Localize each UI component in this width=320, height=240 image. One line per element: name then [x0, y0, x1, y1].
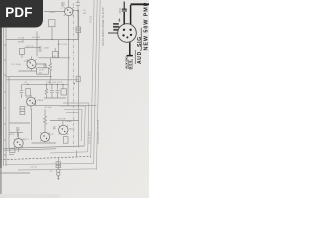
svg-text:12BE6: 12BE6	[37, 100, 44, 102]
svg-text:2nd DET: 2nd DET	[32, 37, 41, 39]
svg-text:470K: 470K	[119, 7, 122, 13]
svg-text:AUD. SIG: AUD. SIG	[137, 36, 143, 64]
svg-text:.02 10K: .02 10K	[44, 107, 52, 109]
svg-text:PDF: PDF	[5, 5, 32, 20]
svg-text:RECT: RECT	[23, 139, 30, 141]
svg-text:VOL 500K: VOL 500K	[11, 64, 22, 66]
svg-text:1W 50R: 1W 50R	[58, 118, 66, 120]
svg-text:47K: 47K	[52, 56, 56, 58]
svg-text:NEW 50W PMP: NEW 50W PMP	[144, 2, 150, 51]
svg-text:.05 .05: .05 .05	[30, 167, 37, 169]
svg-text:M08.: M08.	[128, 58, 132, 70]
svg-text:1st AF: 1st AF	[18, 37, 25, 40]
svg-text:1st IF: 1st IF	[39, 69, 45, 72]
svg-text:TM-18: TM-18	[90, 15, 93, 23]
svg-text:ATLAS RADIO MODEL TA-10 TR: ATLAS RADIO MODEL TA-10 TR	[101, 7, 105, 46]
svg-text:AMP: AMP	[18, 41, 23, 44]
svg-text:OSC COIL: OSC COIL	[57, 44, 68, 46]
svg-text:220K: 220K	[44, 48, 50, 50]
svg-text:OUT: OUT	[49, 134, 54, 136]
svg-text:100K .005 .01 IF: 100K .005 .01 IF	[46, 82, 63, 84]
svg-text:47K .02: 47K .02	[26, 46, 34, 48]
svg-text:12AV6: 12AV6	[24, 60, 31, 63]
svg-text:12BA6: 12BA6	[65, 120, 72, 123]
svg-text:10K: 10K	[83, 13, 87, 15]
svg-text:12AT6: 12AT6	[49, 11, 56, 14]
svg-text:50C5: 50C5	[9, 134, 15, 136]
svg-text:SCHEMATIC NO 2215: SCHEMATIC NO 2215	[97, 119, 100, 144]
svg-text:TM-1B SCH: TM-1B SCH	[89, 131, 92, 144]
svg-text:6AQ5: 6AQ5	[69, 128, 75, 131]
